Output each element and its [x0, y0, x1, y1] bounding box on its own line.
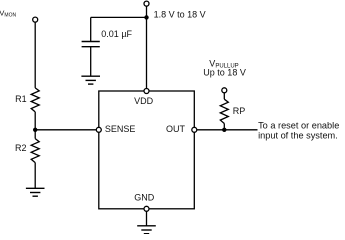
pin SENSE — [96, 127, 101, 132]
svg-text:0.01 µF: 0.01 µF — [101, 29, 132, 39]
terminal VMON — [33, 17, 38, 22]
svg-text:To a reset or enable: To a reset or enable — [258, 120, 339, 130]
wire supply to VDD pin — [146, 6, 148, 91]
ground under R2 — [26, 188, 45, 196]
wire VPULLUP to RP — [223, 93, 225, 99]
wire VDD rail horizontal — [91, 16, 147, 18]
svg-text:R1: R1 — [15, 94, 27, 104]
svg-text:SENSE: SENSE — [105, 124, 136, 134]
wire GND pin to ground — [146, 211, 148, 225]
resistor R2 — [31, 139, 39, 163]
svg-text:RP: RP — [233, 106, 246, 116]
junction node divider — [33, 128, 37, 132]
pin OUT — [192, 127, 197, 132]
junction node OUT-RP — [222, 128, 226, 132]
wire RP to OUT net — [223, 124, 225, 130]
wire divider to SENSE — [35, 129, 96, 131]
wire VMON to R1 — [34, 22, 36, 88]
wire OUT net — [197, 129, 258, 131]
svg-text:OUT: OUT — [166, 124, 186, 134]
junction node VDD rail — [144, 15, 148, 19]
svg-text:VDD: VDD — [134, 96, 154, 106]
pin VDD — [144, 89, 149, 94]
IC U1 body — [99, 91, 195, 209]
svg-text:R2: R2 — [15, 143, 27, 153]
resistor RP — [220, 99, 228, 123]
capacitor C 0.01uF — [82, 17, 100, 76]
terminal VDD supply — [144, 1, 149, 6]
wire R2 to ground — [34, 163, 36, 189]
svg-text:GND: GND — [134, 193, 155, 203]
pin GND — [144, 206, 149, 211]
svg-text:input of the system.: input of the system. — [258, 130, 338, 140]
wire R1 to R2 — [34, 112, 36, 139]
ground under capacitor — [81, 76, 100, 84]
ground under GND pin — [137, 226, 156, 234]
terminal VPULLUP — [222, 88, 227, 93]
svg-text:1.8 V to 18 V: 1.8 V to 18 V — [154, 9, 206, 19]
svg-text:Up to 18 V: Up to 18 V — [203, 67, 246, 77]
resistor R1 — [31, 88, 39, 112]
